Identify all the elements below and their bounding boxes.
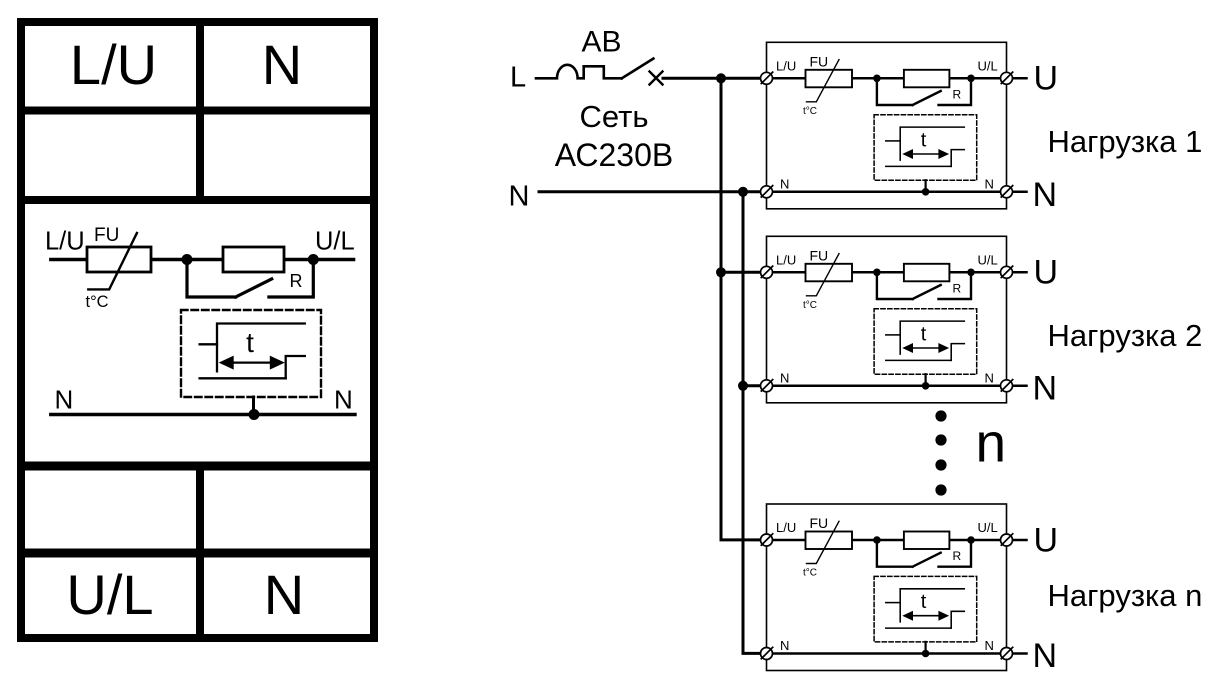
module 1 timer bottom plate xyxy=(886,165,951,167)
svg-text:U/L: U/L xyxy=(66,563,153,626)
module 1 fuse FU (thermal) xyxy=(806,70,853,88)
node L bus module 2 junction xyxy=(716,267,726,277)
module 2 node junction left xyxy=(873,269,881,277)
module n switch contact bypass xyxy=(877,540,971,567)
module 2 terminal L/U xyxy=(761,266,773,278)
svg-text:Нагрузка 2: Нагрузка 2 xyxy=(1048,318,1203,353)
svg-text:R: R xyxy=(290,271,303,291)
module n resistor R xyxy=(904,532,950,550)
svg-text:U: U xyxy=(1034,60,1059,98)
timer arrow (left schematic) xyxy=(230,361,273,363)
node L bus top junction xyxy=(716,73,726,83)
module 2 node stem junction xyxy=(922,382,930,390)
module n terminal N right xyxy=(1001,647,1013,659)
module 1 resistor R xyxy=(904,70,950,88)
module 1 fuse t°C diagonal xyxy=(807,60,840,102)
module 1 timer top plate xyxy=(900,127,964,160)
node junction left (left schematic) xyxy=(182,254,193,265)
bus L vertical xyxy=(721,78,761,540)
column divider top xyxy=(196,18,204,200)
module n terminal U/L xyxy=(1001,534,1013,546)
svg-text:FU: FU xyxy=(810,247,829,263)
svg-text:FU: FU xyxy=(810,53,829,69)
divider row4/row5 xyxy=(17,549,378,558)
svg-text:N: N xyxy=(780,176,789,191)
module n node stem junction xyxy=(922,650,930,658)
module n timer right step xyxy=(951,611,964,628)
module 2 enclosure box xyxy=(767,236,1007,402)
breaker switch blade xyxy=(622,59,654,79)
svg-text:t: t xyxy=(246,327,254,358)
node N junction (left schematic) xyxy=(249,409,260,420)
module 2 node junction right xyxy=(967,269,975,277)
resistor R (left schematic) xyxy=(223,247,284,272)
module 2 fuse FU (thermal) xyxy=(806,264,853,282)
timer top plate (left schematic) xyxy=(217,324,305,372)
module 2 timer top plate xyxy=(900,321,964,354)
timer left lead (left schematic) xyxy=(200,343,217,345)
device outline (terminal layout) xyxy=(21,22,374,638)
svg-text:N: N xyxy=(334,385,353,415)
svg-text:R: R xyxy=(953,549,962,563)
node N bus module 2 junction xyxy=(738,381,748,391)
module 2 timer arrow xyxy=(911,347,942,349)
node N bus top junction xyxy=(738,187,748,197)
module 2 timer dashed box xyxy=(874,309,977,375)
node junction right (left schematic) xyxy=(308,254,319,265)
module 2 timer bottom plate xyxy=(886,359,951,361)
module 1 terminal U/L xyxy=(1001,72,1013,84)
svg-text:L/U: L/U xyxy=(776,58,796,73)
svg-text:L/U: L/U xyxy=(776,520,796,535)
svg-text:L: L xyxy=(510,62,526,94)
column divider bottom xyxy=(196,466,204,642)
module 2 timer right step xyxy=(951,344,964,361)
svg-text:Нагрузка n: Нагрузка n xyxy=(1048,578,1203,613)
module n timer left lead xyxy=(886,602,900,604)
module n wire stub to U xyxy=(1013,539,1027,542)
svg-text:N: N xyxy=(55,385,74,415)
svg-text:t: t xyxy=(921,323,927,345)
svg-text:t°C: t°C xyxy=(803,300,817,311)
module 2 wire stub to N xyxy=(1013,385,1027,388)
svg-text:U/L: U/L xyxy=(978,520,998,535)
svg-text:N: N xyxy=(509,181,530,213)
module n timer bottom plate xyxy=(886,627,951,629)
module 2 timer left lead xyxy=(886,334,900,336)
module n timer top plate xyxy=(900,589,964,622)
module 2 switch contact bypass xyxy=(877,272,971,299)
timer dashed box (left schematic) xyxy=(181,310,321,397)
svg-text:N: N xyxy=(780,370,789,385)
svg-text:U/L: U/L xyxy=(978,252,998,267)
switch contact bypass (left schematic) xyxy=(187,260,313,298)
module 2 terminal N right xyxy=(1001,380,1013,392)
module 2 fuse t°C diagonal xyxy=(807,254,840,296)
module n timer stem to N xyxy=(924,642,926,654)
svg-text:АС230В: АС230В xyxy=(555,137,673,173)
divider row1/row2 xyxy=(17,107,378,115)
module 1 node junction right xyxy=(967,75,975,83)
module n fuse t°C diagonal xyxy=(807,521,840,563)
svg-text:FU: FU xyxy=(810,515,829,531)
wire L to module 1 xyxy=(663,77,761,80)
module 1 timer right step xyxy=(951,150,964,167)
bus N vertical xyxy=(743,192,761,654)
module 2 wire N row xyxy=(767,385,1007,388)
module 2 wire L/U to U/L xyxy=(767,271,1007,274)
svg-text:U: U xyxy=(1034,254,1059,292)
module 1 wire L/U to U/L xyxy=(767,77,1007,80)
timer stem (left schematic) xyxy=(252,397,255,415)
svg-text:U: U xyxy=(1034,521,1059,559)
svg-text:N: N xyxy=(1033,176,1058,214)
module 1 node stem junction xyxy=(922,188,930,196)
module 1 wire stub to N xyxy=(1013,191,1027,194)
module 1 wire stub to U xyxy=(1013,77,1027,80)
timer bottom plate (left schematic) xyxy=(200,377,286,379)
module n terminal L/U xyxy=(761,534,773,546)
svg-text:U/L: U/L xyxy=(315,228,355,256)
wire N (left schematic) xyxy=(51,413,355,416)
svg-text:R: R xyxy=(953,87,962,101)
module 1 wire N row xyxy=(767,191,1007,194)
svg-text:t: t xyxy=(921,591,927,613)
module n node junction right xyxy=(967,536,975,544)
module n wire L/U to U/L xyxy=(767,539,1007,542)
wire N to module 1 xyxy=(539,190,761,193)
svg-text:N: N xyxy=(780,638,789,653)
module 1 timer dashed box xyxy=(874,115,977,181)
timer right step (left schematic) xyxy=(286,356,305,378)
svg-text:FU: FU xyxy=(94,225,119,246)
ellipsis dots between module 2 and module n xyxy=(935,410,946,495)
module n timer arrow xyxy=(911,615,942,617)
module 1 timer arrow xyxy=(911,153,942,155)
module 1 node junction left xyxy=(873,75,881,83)
divider row2/middle xyxy=(17,196,378,204)
module 2 resistor R xyxy=(904,264,950,282)
module n fuse FU (thermal) xyxy=(806,532,853,550)
svg-text:N: N xyxy=(1033,369,1058,407)
breaker contact x mark xyxy=(650,72,663,85)
module n node junction left xyxy=(873,536,881,544)
module 1 enclosure box xyxy=(767,42,1007,209)
fuse t°C diagonal (left schematic) xyxy=(88,233,137,289)
circuit breaker AB symbol xyxy=(536,65,622,79)
module 2 terminal N left xyxy=(761,380,773,392)
svg-text:N: N xyxy=(262,33,302,96)
module 2 wire stub to U xyxy=(1013,271,1027,274)
fuse FU (left schematic) xyxy=(87,247,151,272)
svg-text:t°C: t°C xyxy=(86,293,109,311)
module 2 timer stem to N xyxy=(924,374,926,386)
svg-text:Сеть: Сеть xyxy=(580,99,649,134)
module n wire N row xyxy=(767,652,1007,655)
svg-text:L/U: L/U xyxy=(45,228,85,256)
module 2 terminal U/L xyxy=(1001,266,1013,278)
svg-text:n: n xyxy=(976,412,1007,474)
svg-text:t: t xyxy=(921,129,927,151)
module 1 terminal N left xyxy=(761,186,773,198)
module 1 terminal N right xyxy=(1001,186,1013,198)
svg-text:t°C: t°C xyxy=(803,568,817,579)
svg-text:L/U: L/U xyxy=(70,33,157,96)
module n wire stub to N xyxy=(1013,652,1027,655)
module 1 timer stem to N xyxy=(924,180,926,192)
svg-text:L/U: L/U xyxy=(776,252,796,267)
svg-text:АВ: АВ xyxy=(581,26,621,59)
wire N bus to module 2 xyxy=(743,384,761,387)
svg-text:U/L: U/L xyxy=(978,58,998,73)
svg-text:R: R xyxy=(953,281,962,295)
svg-text:t°C: t°C xyxy=(803,106,817,117)
module 1 timer left lead xyxy=(886,140,900,142)
module n terminal N left xyxy=(761,647,773,659)
module 1 switch contact bypass xyxy=(877,78,971,105)
module n timer dashed box xyxy=(874,576,977,642)
svg-text:N: N xyxy=(985,638,994,653)
module n enclosure box xyxy=(767,504,1007,671)
wire L/U to U/L (left schematic) xyxy=(51,258,354,261)
svg-text:N: N xyxy=(1033,637,1058,675)
wire L bus to module 2 xyxy=(721,271,761,274)
svg-text:Нагрузка 1: Нагрузка 1 xyxy=(1048,124,1203,159)
svg-text:N: N xyxy=(264,563,304,626)
divider middle/row4 xyxy=(17,462,378,471)
svg-text:N: N xyxy=(985,176,994,191)
module 1 terminal L/U xyxy=(761,72,773,84)
svg-text:N: N xyxy=(985,370,994,385)
